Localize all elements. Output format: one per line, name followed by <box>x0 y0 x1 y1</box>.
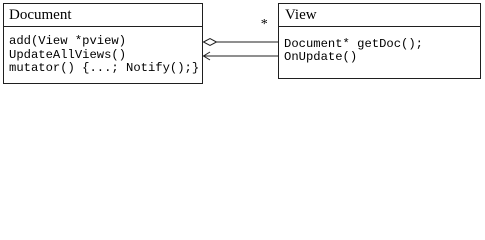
association line View-Document <box>203 55 278 57</box>
multiplicity label * <box>261 17 268 33</box>
View methods text <box>284 38 423 65</box>
Document title separator <box>3 26 203 27</box>
aggregation diamond <box>204 39 217 46</box>
aggregation line Document-View <box>216 41 278 43</box>
class box Document <box>3 3 203 84</box>
class box View <box>278 3 481 79</box>
connector overlay <box>0 0 485 87</box>
Document methods text <box>9 35 199 76</box>
View title separator <box>278 26 481 27</box>
Document title text <box>9 7 71 24</box>
View title text <box>285 7 317 24</box>
open arrowhead at Document <box>204 52 211 60</box>
